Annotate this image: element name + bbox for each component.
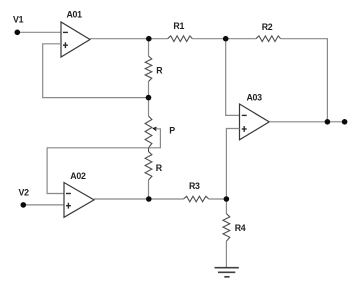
op-amp A01 <box>61 9 90 57</box>
resistor R (lower) <box>145 148 163 180</box>
pin - (A01) <box>63 31 68 33</box>
wire R (lower) to A02 output node <box>148 180 150 199</box>
svg-text:R2: R2 <box>262 22 273 32</box>
wire node to R1 <box>149 38 168 40</box>
wire node to R2 <box>226 38 256 40</box>
pin + (A01) <box>63 44 68 46</box>
resistor R (upper) <box>145 56 163 82</box>
svg-text:A03: A03 <box>247 93 263 103</box>
svg-text:R: R <box>156 163 163 173</box>
wire A01 feedback (+ input to node between R and P) <box>43 44 149 98</box>
wire V2 to A02 non-inverting input <box>23 204 64 206</box>
wire R4 to ground <box>225 241 227 268</box>
wire R2 to A03 output node (around the corner) <box>281 39 328 122</box>
wire node to R3 <box>149 198 184 200</box>
resistor R2 <box>256 22 281 42</box>
resistor R3 <box>184 181 209 202</box>
pin - (A02) <box>66 193 71 195</box>
wire A01 output to node <box>90 38 149 40</box>
wiper arrow P <box>152 127 156 132</box>
wire A03 non-inverting input down to R3/R4 node <box>226 129 239 200</box>
pin + (A02) <box>66 205 71 207</box>
svg-text:R3: R3 <box>189 181 200 191</box>
node junction dot (R1/R2/A03 inverting branch) <box>223 36 229 42</box>
op-amp A03 <box>240 93 270 140</box>
wire wiper to bottom terminal <box>149 129 161 148</box>
wire A02 output to node <box>94 198 149 200</box>
op-amp A02 <box>64 171 94 218</box>
pin + (A03) <box>242 128 247 130</box>
node junction dot (A03 output / R2 feedback) <box>325 119 331 125</box>
svg-text:R4: R4 <box>235 223 246 233</box>
resistor R1 <box>168 21 193 41</box>
terminal dot V2 <box>21 202 27 208</box>
ground <box>215 268 239 277</box>
terminal dot V1 <box>14 30 20 36</box>
potentiometer P <box>145 116 175 148</box>
resistor R4 <box>223 214 246 242</box>
node junction dot (A02 output / R lower) <box>146 196 152 202</box>
wire node to potentiometer P <box>148 98 150 116</box>
wire R3 to node <box>209 198 227 200</box>
pin - (A03) <box>242 114 247 116</box>
svg-text:R1: R1 <box>173 21 184 31</box>
svg-text:P: P <box>169 126 175 136</box>
wire node down to resistor R (upper) <box>148 39 150 56</box>
svg-text:A01: A01 <box>67 9 83 19</box>
wire A03 output <box>269 121 344 123</box>
node junction dot (R3 / R4 / A03 non-inverting branch) <box>224 196 230 202</box>
svg-text:A02: A02 <box>70 171 86 181</box>
wire V1 to A01 inverting input <box>17 31 61 33</box>
wire node to R4 <box>225 199 227 214</box>
wire R (upper) to node <box>148 82 150 98</box>
node junction dot (A01 output / R top) <box>146 36 152 42</box>
wire A02 feedback (inverting input to node P bottom / R top) <box>47 148 148 194</box>
svg-text:V2: V2 <box>19 188 30 198</box>
svg-text:V1: V1 <box>13 14 24 24</box>
svg-text:R: R <box>156 66 163 76</box>
wire node to A03 inverting input <box>226 39 240 116</box>
wire R1 to node <box>192 38 225 40</box>
node junction dot (R / P / A01 feedback) <box>146 95 152 101</box>
terminal dot output <box>342 119 348 125</box>
